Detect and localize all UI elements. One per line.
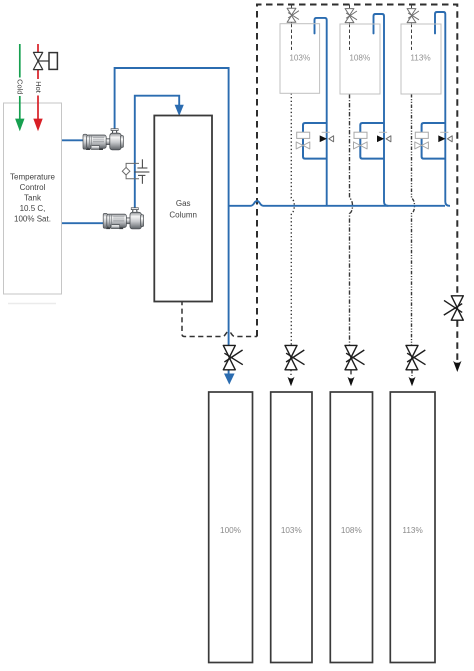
svg-text:10.5 C,: 10.5 C,	[20, 204, 46, 213]
svg-text:113%: 113%	[410, 54, 430, 63]
svg-text:103%: 103%	[289, 54, 310, 63]
svg-text:Tank: Tank	[24, 194, 42, 203]
svg-text:Cold: Cold	[16, 79, 25, 94]
svg-text:108%: 108%	[341, 526, 362, 535]
svg-text:100%: 100%	[220, 526, 241, 535]
svg-text:113%: 113%	[402, 526, 422, 535]
svg-text:Hot: Hot	[34, 81, 43, 93]
svg-text:Gas: Gas	[176, 199, 191, 208]
svg-text:103%: 103%	[281, 526, 302, 535]
svg-text:Temperature: Temperature	[10, 173, 55, 182]
svg-text:108%: 108%	[349, 54, 370, 63]
svg-text:Column: Column	[169, 211, 197, 220]
svg-text:Control: Control	[20, 183, 46, 192]
svg-text:100% Sat.: 100% Sat.	[14, 215, 51, 224]
